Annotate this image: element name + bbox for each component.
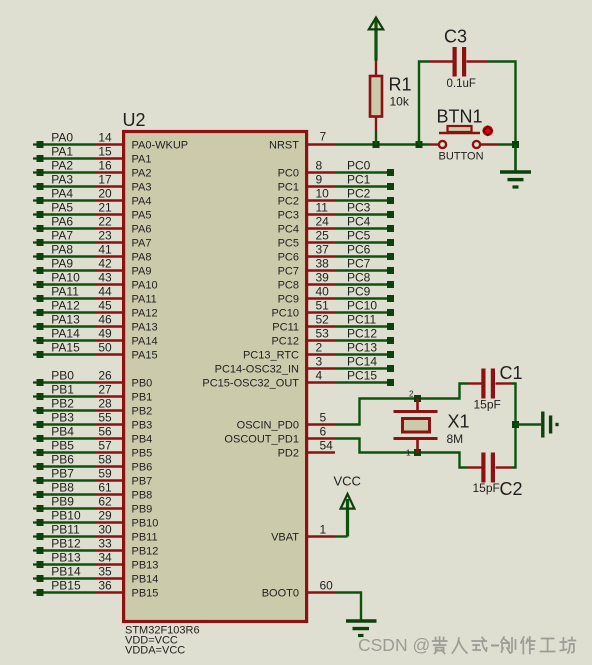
svg-text:57: 57 (98, 439, 112, 453)
svg-text:PB8: PB8 (51, 481, 74, 495)
button BTN1 interactive marker (483, 126, 494, 137)
pin PC10 lead (pin 51) (306, 311, 335, 313)
wire PB10 (43, 521, 95, 523)
svg-text:PB0: PB0 (51, 369, 74, 383)
svg-text:2: 2 (316, 341, 323, 355)
svg-text:PB11: PB11 (132, 532, 158, 544)
terminal PB6 (33, 465, 37, 467)
svg-text:PC1: PC1 (278, 182, 299, 194)
svg-text:PC7: PC7 (278, 266, 299, 278)
watermark char ru (452, 638, 467, 653)
svg-text:PA9: PA9 (51, 257, 73, 271)
svg-text:BTN1: BTN1 (437, 107, 483, 127)
wire PB3 (43, 423, 95, 425)
svg-text:PB4: PB4 (132, 434, 153, 446)
crystal X1 bottom electrode (394, 437, 438, 440)
wire PB2 (43, 409, 95, 411)
pin PD2 lead (pin 54, unconnected) (306, 451, 335, 453)
svg-text:41: 41 (98, 243, 112, 257)
terminal PB3 (33, 423, 37, 425)
svg-text:PA2: PA2 (132, 168, 152, 180)
pin PA15 lead (pin 50) (95, 353, 123, 355)
svg-text:PA13: PA13 (51, 313, 80, 327)
svg-text:PB11: PB11 (51, 523, 80, 537)
pin PB3 lead (pin 55) (95, 423, 123, 425)
terminal PB5 (33, 451, 37, 453)
button BTN1 actuator bar (439, 132, 480, 135)
terminal PA10 (33, 283, 37, 285)
wire PB9 (43, 507, 95, 509)
terminal PB12 (33, 549, 37, 551)
terminal PB9 (33, 507, 37, 509)
svg-text:PA9: PA9 (132, 266, 152, 278)
svg-text:PB1: PB1 (51, 383, 74, 397)
svg-text:38: 38 (316, 257, 330, 271)
svg-text:PC1: PC1 (347, 173, 371, 187)
svg-text:PA8: PA8 (132, 252, 152, 264)
wire PC10 (335, 311, 388, 313)
terminal PA1 (33, 157, 37, 159)
svg-text:17: 17 (98, 173, 112, 187)
svg-text:15pF: 15pF (473, 481, 500, 495)
wire C3 left to NRST (419, 62, 429, 145)
pin PB6 lead (pin 58) (95, 465, 123, 467)
crystal X1 top stem (416, 399, 419, 412)
wire PA11 (43, 297, 95, 299)
wire PB14 (43, 577, 95, 579)
svg-text:PA5: PA5 (132, 210, 152, 222)
pin PA10 lead (pin 43) (95, 283, 123, 285)
wire PC12 (335, 339, 388, 341)
svg-text:36: 36 (98, 579, 112, 593)
pin PB1 lead (pin 27) (95, 395, 123, 397)
svg-text:PC0: PC0 (347, 159, 371, 173)
svg-text:15: 15 (98, 145, 112, 159)
pin PB10 lead (pin 29) (95, 521, 123, 523)
pin PA3 lead (pin 17) (95, 185, 123, 187)
wire PA1 (43, 157, 95, 159)
svg-text:PC11: PC11 (347, 313, 376, 327)
svg-text:PA10: PA10 (51, 271, 80, 285)
svg-text:62: 62 (98, 495, 112, 509)
pin PB9 lead (pin 62) (95, 507, 123, 509)
pin PB2 lead (pin 28) (95, 409, 123, 411)
pin PA7 lead (pin 23) (95, 241, 123, 243)
wire PB8 (43, 493, 95, 495)
wire PC15 (335, 381, 388, 383)
watermark char qian (433, 637, 447, 654)
terminal PA5 (33, 213, 37, 215)
svg-text:1: 1 (320, 523, 327, 537)
svg-text:PC15: PC15 (347, 369, 377, 383)
svg-text:BUTTON: BUTTON (439, 151, 484, 163)
wire PA5 (43, 213, 95, 215)
terminal PC12 (387, 337, 394, 344)
pin PC15-OSC32_OUT lead (pin 4) (306, 381, 335, 383)
svg-text:R1: R1 (389, 75, 412, 95)
wire PA7 (43, 241, 95, 243)
svg-text:7: 7 (320, 130, 327, 144)
svg-text:CSDN @: CSDN @ (358, 635, 430, 655)
svg-text:PA12: PA12 (132, 308, 158, 320)
wire to crystal ground (516, 423, 542, 425)
svg-text:43: 43 (98, 271, 112, 285)
svg-text:PA11: PA11 (132, 294, 157, 306)
svg-text:PC8: PC8 (347, 271, 371, 285)
svg-text:8M: 8M (447, 432, 464, 446)
pin PC4 lead (pin 24) (306, 227, 335, 229)
svg-text:PA13: PA13 (132, 322, 158, 334)
crystal X1 body (403, 419, 430, 433)
terminal PC11 (387, 323, 394, 330)
wire PC0 (335, 171, 388, 173)
wire button to ground net (497, 143, 516, 145)
svg-text:OSCOUT_PD1: OSCOUT_PD1 (224, 434, 299, 446)
terminal PB1 (33, 395, 37, 397)
terminal PA4 (33, 199, 37, 201)
svg-text:PC11: PC11 (272, 322, 299, 334)
terminal PA11 (33, 297, 37, 299)
svg-text:PB2: PB2 (51, 397, 74, 411)
wire NRST net (335, 143, 429, 145)
terminal PB15 (33, 591, 37, 593)
svg-text:PA4: PA4 (132, 196, 152, 208)
IC U2 STM32F103R6 chip body (124, 132, 307, 622)
terminal PC7 (387, 267, 394, 274)
pin PA2 lead (pin 16) (95, 171, 123, 173)
terminal PC15 (387, 379, 394, 386)
pin PB0 lead (pin 26) (95, 381, 123, 383)
terminal PA13 (33, 325, 37, 327)
svg-text:PA4: PA4 (51, 187, 73, 201)
pin PA9 lead (pin 42) (95, 269, 123, 271)
svg-text:PC10: PC10 (271, 308, 299, 320)
svg-text:26: 26 (98, 369, 112, 383)
svg-text:16: 16 (98, 159, 112, 173)
svg-text:PA1: PA1 (51, 145, 73, 159)
wire PA3 (43, 185, 95, 187)
wire PB15 (43, 591, 95, 593)
power symbol VCC (arrow) (346, 499, 349, 537)
terminal PB14 (33, 577, 37, 579)
svg-text:PA6: PA6 (51, 215, 73, 229)
svg-text:PA7: PA7 (51, 229, 73, 243)
terminal PC4 (387, 225, 394, 232)
svg-text:PB13: PB13 (132, 560, 159, 572)
svg-text:PB5: PB5 (132, 448, 153, 460)
pin PB13 lead (pin 34) (95, 563, 123, 565)
resistor R1 body (370, 76, 382, 117)
terminal PA9 (33, 269, 37, 271)
pin PC12 lead (pin 53) (306, 339, 335, 341)
svg-text:PC10: PC10 (347, 299, 377, 313)
wire OSCIN_PD0 to crystal top node (335, 384, 467, 425)
crystal X1 top electrode (394, 410, 438, 413)
pin OSCIN_PD0 lead (pin 5) (306, 423, 335, 425)
svg-text:PB6: PB6 (51, 453, 74, 467)
terminal PC0 (387, 169, 394, 176)
wire PA10 (43, 283, 95, 285)
pin OSCOUT_PD1 lead (pin 6) (306, 437, 335, 439)
terminal PB10 (33, 521, 37, 523)
wire PB7 (43, 479, 95, 481)
wire PB12 (43, 549, 95, 551)
wire PA15 (43, 353, 95, 355)
wire PC8 (335, 283, 388, 285)
svg-text:PA15: PA15 (132, 350, 158, 362)
terminal PC6 (387, 253, 394, 260)
svg-text:PB9: PB9 (132, 504, 153, 516)
junction crystal top (node XTAL1) (414, 395, 421, 402)
svg-text:PA12: PA12 (51, 299, 80, 313)
terminal PC1 (387, 183, 394, 190)
svg-text:28: 28 (98, 397, 112, 411)
svg-text:PC6: PC6 (347, 243, 371, 257)
pin PC5 lead (pin 25) (306, 241, 335, 243)
svg-text:PC2: PC2 (347, 187, 371, 201)
svg-text:PB6: PB6 (132, 462, 153, 474)
svg-text:PC7: PC7 (347, 257, 371, 271)
terminal PA0 (33, 143, 37, 145)
svg-text:PA11: PA11 (51, 285, 79, 299)
wire PB5 (43, 451, 95, 453)
svg-text:6: 6 (320, 425, 327, 439)
terminal PB2 (33, 409, 37, 411)
svg-text:PB10: PB10 (132, 518, 159, 530)
capacitor C1 plates (481, 369, 485, 399)
svg-text:PB14: PB14 (132, 574, 159, 586)
svg-text:C3: C3 (444, 27, 467, 47)
svg-text:PA7: PA7 (132, 238, 152, 250)
wire PB4 (43, 437, 95, 439)
pin PB4 lead (pin 56) (95, 437, 123, 439)
svg-text:30: 30 (98, 523, 112, 537)
svg-text:40: 40 (316, 285, 330, 299)
pin PB15 lead (pin 36) (95, 591, 123, 593)
svg-text:58: 58 (98, 453, 112, 467)
button BTN1 actuator cap (448, 126, 472, 132)
svg-text:21: 21 (98, 201, 112, 215)
svg-text:C1: C1 (500, 363, 523, 383)
wire R1 to NRST (375, 131, 377, 145)
svg-text:PB1: PB1 (132, 392, 153, 404)
pin PC1 lead (pin 9) (306, 185, 335, 187)
terminal PC2 (387, 197, 394, 204)
svg-text:PB3: PB3 (51, 411, 74, 425)
svg-text:PC14: PC14 (347, 355, 377, 369)
junction R1/NRST (373, 141, 380, 148)
wire C3 right down to button (488, 62, 516, 171)
capacitor C2 plates (481, 453, 485, 483)
pin PC11 lead (pin 52) (306, 325, 335, 327)
wire PA13 (43, 325, 95, 327)
svg-text:PB3: PB3 (132, 420, 153, 432)
terminal PB8 (33, 493, 37, 495)
wire PC13 (335, 353, 388, 355)
wire PA6 (43, 227, 95, 229)
svg-text:1: 1 (406, 449, 411, 458)
pin PA6 lead (pin 22) (95, 227, 123, 229)
watermark dash (492, 645, 498, 647)
terminal PC9 (387, 295, 394, 302)
svg-text:C2: C2 (500, 479, 523, 499)
capacitor C3 plates (453, 47, 457, 77)
svg-text:PB5: PB5 (51, 439, 74, 453)
wire PA0 (43, 143, 95, 145)
svg-text:PA6: PA6 (132, 224, 152, 236)
svg-text:PD2: PD2 (278, 448, 299, 460)
svg-text:PA8: PA8 (51, 243, 73, 257)
svg-text:U2: U2 (123, 110, 146, 130)
pin PA4 lead (pin 20) (95, 199, 123, 201)
svg-text:52: 52 (316, 313, 330, 327)
svg-text:8: 8 (316, 159, 323, 173)
pin PA11 lead (pin 44) (95, 297, 123, 299)
wire PC1 (335, 185, 388, 187)
pin PC0 lead (pin 8) (306, 171, 335, 173)
svg-text:9: 9 (316, 173, 323, 187)
svg-text:PA1: PA1 (132, 154, 152, 166)
button BTN1 left contact (439, 141, 446, 148)
capacitor C3 leads (429, 60, 453, 62)
junction crystal bottom (node XTAL2) (414, 449, 421, 456)
wire PB6 (43, 465, 95, 467)
svg-text:PC0: PC0 (278, 168, 299, 180)
wire PC11 (335, 325, 388, 327)
pin PC9 lead (pin 40) (306, 297, 335, 299)
wire PB13 (43, 563, 95, 565)
pin PC2 lead (pin 10) (306, 199, 335, 201)
svg-text:PB12: PB12 (51, 537, 81, 551)
terminal PB11 (33, 535, 37, 537)
svg-text:44: 44 (98, 285, 112, 299)
button BTN1 left lead (429, 143, 439, 145)
terminal PC10 (387, 309, 394, 316)
svg-text:4: 4 (316, 369, 323, 383)
terminal PA3 (33, 185, 37, 187)
pin PA5 lead (pin 21) (95, 213, 123, 215)
svg-text:50: 50 (98, 341, 112, 355)
pin PC13_RTC lead (pin 2) (306, 353, 335, 355)
pin PA13 lead (pin 46) (95, 325, 123, 327)
wire PA4 (43, 199, 95, 201)
terminal PA12 (33, 311, 37, 313)
wire PA2 (43, 171, 95, 173)
terminal PB4 (33, 437, 37, 439)
terminal PC8 (387, 281, 394, 288)
svg-text:PB4: PB4 (51, 425, 74, 439)
svg-text:14: 14 (98, 131, 112, 145)
pin PB8 lead (pin 61) (95, 493, 123, 495)
watermark char chuang (501, 637, 516, 653)
svg-text:PC12: PC12 (347, 327, 377, 341)
svg-text:PA0-WKUP: PA0-WKUP (132, 140, 189, 152)
svg-text:BOOT0: BOOT0 (262, 588, 299, 600)
junction button/ground net (512, 141, 519, 148)
terminal PC5 (387, 239, 394, 246)
power symbol VCC (top arrow) (374, 20, 377, 61)
svg-text:PB12: PB12 (132, 546, 159, 558)
pin PC14-OSC32_IN lead (pin 3) (306, 367, 335, 369)
svg-text:PB15: PB15 (51, 579, 81, 593)
svg-text:PC8: PC8 (278, 280, 299, 292)
wire BOOT0 to ground (335, 593, 361, 620)
capacitor C2 leads (467, 466, 482, 468)
svg-text:53: 53 (316, 327, 330, 341)
pin PA12 lead (pin 45) (95, 311, 123, 313)
svg-text:34: 34 (98, 551, 112, 565)
pin PA1 lead (pin 15) (95, 157, 123, 159)
junction caps/ground (512, 421, 519, 428)
svg-text:10k: 10k (390, 95, 410, 109)
terminal PC3 (387, 211, 394, 218)
wire PA12 (43, 311, 95, 313)
svg-text:PC2: PC2 (278, 196, 299, 208)
capacitor C1 leads (467, 382, 482, 384)
svg-text:PA3: PA3 (51, 173, 73, 187)
svg-text:PB13: PB13 (51, 551, 81, 565)
wire PC6 (335, 255, 388, 257)
svg-text:35: 35 (98, 565, 112, 579)
terminal PA8 (33, 255, 37, 257)
svg-text:PB15: PB15 (132, 588, 159, 600)
pin BOOT0 lead (pin 60) (306, 591, 335, 593)
svg-text:24: 24 (316, 215, 330, 229)
svg-text:PA15: PA15 (51, 341, 80, 355)
svg-text:VDDA=VCC: VDDA=VCC (125, 645, 185, 657)
watermark char shi (472, 638, 487, 652)
terminal PB13 (33, 563, 37, 565)
pin VBAT lead (pin 1) (306, 535, 335, 537)
svg-text:PA14: PA14 (51, 327, 80, 341)
svg-text:5: 5 (320, 411, 327, 425)
button BTN1 right contact (473, 141, 480, 148)
svg-text:37: 37 (316, 243, 330, 257)
pin PC6 lead (pin 37) (306, 255, 335, 257)
svg-text:25: 25 (316, 229, 330, 243)
svg-text:PA0: PA0 (51, 131, 73, 145)
svg-text:60: 60 (320, 579, 334, 593)
svg-text:10: 10 (316, 187, 330, 201)
wire PC2 (335, 199, 388, 201)
svg-text:29: 29 (98, 509, 112, 523)
svg-text:42: 42 (98, 257, 112, 271)
terminal PB0 (33, 381, 37, 383)
svg-text:PC9: PC9 (347, 285, 371, 299)
svg-text:PC15-OSC32_OUT: PC15-OSC32_OUT (202, 378, 299, 390)
pin PB7 lead (pin 59) (95, 479, 123, 481)
svg-text:PB8: PB8 (132, 490, 153, 502)
wire VBAT to VCC (335, 535, 348, 537)
svg-text:PB14: PB14 (51, 565, 81, 579)
wire PA9 (43, 269, 95, 271)
wire PC3 (335, 213, 388, 215)
pin PC7 lead (pin 38) (306, 269, 335, 271)
svg-text:55: 55 (98, 411, 112, 425)
wire PC5 (335, 241, 388, 243)
svg-text:NRST: NRST (269, 140, 299, 152)
pin PA8 lead (pin 41) (95, 255, 123, 257)
svg-text:X1: X1 (448, 412, 470, 432)
wire PA14 (43, 339, 95, 341)
terminal PA7 (33, 241, 37, 243)
svg-text:PB0: PB0 (132, 378, 153, 390)
terminal PC14 (387, 365, 394, 372)
svg-text:PC5: PC5 (347, 229, 371, 243)
wire PB11 (43, 535, 95, 537)
wire PB0 (43, 381, 95, 383)
svg-text:11: 11 (316, 201, 329, 215)
